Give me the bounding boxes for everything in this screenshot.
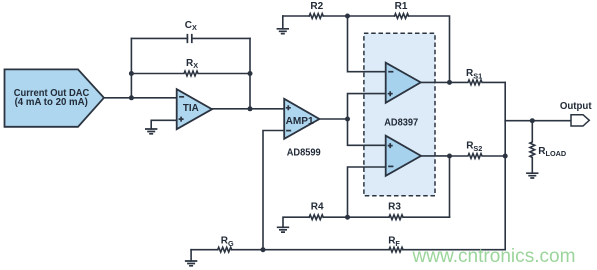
svg-text:AD8599: AD8599 [287,148,321,159]
wire right feedback branch vertical [249,38,251,108]
node AMP1 output junction [345,117,350,122]
pin plus U2A [388,91,393,96]
resistor RG [218,247,232,252]
wire CX row left [131,37,187,39]
wire R4 left end to ground [283,217,309,227]
output terminal arrow [571,115,589,126]
svg-text:R4: R4 [311,202,324,213]
resistor RS1 [450,80,506,85]
op-amp U2B (AD8397 bottom half) [386,136,421,176]
pin minus AMP1 [286,130,291,132]
node RX/CX left junction [129,71,134,76]
svg-text:R3: R3 [388,202,401,213]
node RS2/right column junction [503,154,508,159]
node R2/R1 junction [345,14,350,19]
wire top row left (ground to R2) [283,15,309,17]
ground at R2 left end [282,16,284,29]
node DAC output junction [129,95,134,100]
resistor RF [389,247,403,252]
pin minus TIA [179,96,184,98]
wire AMP1 output to mid bus [319,118,347,120]
resistor R3 [389,215,450,220]
node TIA output junction [248,106,253,111]
ground at R4 left end [277,227,289,232]
wire TIA output to AMP1 non-inverting input [212,108,284,110]
ground at TIA non-inverting input [145,129,157,134]
pin plus TIA [179,117,184,122]
node RG/RF junction [261,247,266,252]
svg-text:www.cntronics.com: www.cntronics.com [411,246,575,267]
svg-text:Output: Output [560,101,592,112]
node RX/CX right junction [248,71,253,76]
resistor R4 [309,215,347,220]
svg-text:AMP1: AMP1 [286,115,314,127]
Current Out DAC source block [5,69,104,126]
resistor RLOAD [530,121,535,174]
pin minus U2A [388,71,393,73]
wire right column vertical [504,82,506,249]
wire U2B output to node [421,155,450,157]
node RLOAD tap junction [530,118,535,123]
op-amp TIA [177,89,212,129]
svg-text:TIA: TIA [183,102,199,114]
AD8397 dashed package box [364,33,435,196]
svg-text:R2: R2 [310,1,323,12]
wire RG/RF bottom row [191,249,505,251]
node U2B output junction [447,154,452,159]
wire R3 to R4 node [348,216,390,218]
pin minus U2B [388,165,393,167]
svg-text:R1: R1 [395,1,408,12]
resistor RX [131,71,250,76]
wire R2/R1 node down to U2A inverting input [348,16,386,72]
capacitor CX plates [187,34,191,43]
svg-text:AD8397: AD8397 [384,118,418,129]
pin plus AMP1 [286,105,291,110]
wire R2 to R1 [323,15,394,17]
resistor R1 [395,14,409,19]
wire DAC output to TIA inverting input [104,97,177,99]
op-amp AMP1 [284,99,319,139]
ground at RLOAD [526,173,538,178]
node U2A output junction [447,80,452,85]
wire AMP1 inverting input down to RG/RF node [263,131,284,250]
node R4/R3 junction [345,215,350,220]
wire output tap [505,120,571,122]
op-amp U2A (AD8397 top half) [386,63,421,103]
wire R1 right end down to U2A output node [409,16,450,82]
wire mid bus to U2A and U2B non-inverting inputs [348,94,386,146]
wire U2A output to node [421,81,450,83]
resistor RS2 [450,154,506,159]
svg-text:(4 mA to 20 mA): (4 mA to 20 mA) [15,97,88,108]
wire left feedback branch vertical [130,38,132,97]
resistor R2 [309,14,323,19]
wire U2B inverting input down to R4/R3 node [348,167,386,217]
wire TIA non-inverting input to ground [151,120,177,129]
wire CX row right [192,37,250,39]
ground at RG left end [190,250,192,261]
wire R3 right end up to U2B output node [449,156,451,217]
pin plus U2B [388,143,393,148]
